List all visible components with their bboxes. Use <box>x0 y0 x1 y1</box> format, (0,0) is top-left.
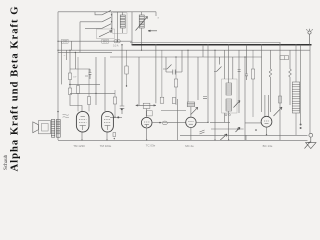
wire IF bottom2 <box>224 113 226 122</box>
IF transformer box <box>222 79 238 113</box>
tuning capacitor arrow <box>99 30 112 36</box>
resistor R4 <box>113 90 116 117</box>
svg-text:TM 323e: TM 323e <box>100 144 112 148</box>
loudspeaker cone <box>33 122 39 133</box>
wire V4 anode side <box>196 121 208 123</box>
svg-text:TC 03e: TC 03e <box>146 143 156 147</box>
connector marks <box>63 114 69 117</box>
wire drop x300.6 <box>300 45 302 124</box>
wire drop x132 <box>131 12 133 45</box>
wire drop x198 <box>197 57 199 100</box>
wire drop x117.5 <box>117 12 119 41</box>
output transformer secondary <box>56 119 60 137</box>
wire switch column <box>111 12 113 33</box>
lamp pair <box>114 40 120 43</box>
wire drop x188 <box>187 50 189 102</box>
node G <box>95 93 96 94</box>
tube V3 envelope <box>141 117 152 128</box>
heavy HT bus <box>132 44 312 46</box>
wire IF bottom <box>228 111 230 140</box>
potentiometer arrow P3 <box>234 101 241 108</box>
wire V5 left <box>245 122 261 124</box>
tube V1 envelope <box>76 111 89 132</box>
svg-text:Alpha Kraft und Beta Kraft G: Alpha Kraft und Beta Kraft G <box>10 7 21 172</box>
wire left rail vertical <box>57 12 59 140</box>
wire stub x280b <box>279 135 281 140</box>
thin companion bus <box>130 42 281 44</box>
capacitor C5 <box>238 70 241 72</box>
output transformer primary <box>51 119 54 137</box>
fuse bus wire <box>58 40 132 42</box>
wire IF top3 <box>232 57 234 79</box>
wire link x71 <box>71 41 73 50</box>
capacitor C3 <box>166 70 182 75</box>
node C <box>126 85 127 86</box>
resistor R8 <box>251 50 254 117</box>
wire y84 <box>69 83 100 85</box>
svg-text:~: ~ <box>64 54 66 58</box>
grid coil V4 <box>187 102 194 107</box>
coil L1 <box>120 15 125 28</box>
wire drop x270 <box>269 50 271 69</box>
tube V2 envelope <box>102 111 114 132</box>
node H <box>255 129 257 131</box>
resistor R2 <box>68 88 71 95</box>
wire to tube V4 <box>190 107 192 118</box>
wire corner x177 <box>161 99 186 140</box>
wire top link coils <box>123 12 142 15</box>
wire C9 to V4 grid <box>168 122 186 124</box>
antenna terminal <box>306 29 312 45</box>
coil L4 small <box>289 69 291 77</box>
wire drop x182 <box>181 50 183 72</box>
coil L2 <box>139 15 144 28</box>
wire drop x245 <box>244 57 246 140</box>
capacitor C9 electrolytic <box>162 121 167 125</box>
output choke winding <box>292 45 299 135</box>
wire tube V5 grid <box>265 95 268 117</box>
potentiometer arrow P2 <box>274 107 283 116</box>
wire drop x310 <box>309 45 311 134</box>
pickup jack <box>305 133 317 148</box>
wire coil L1 bottom <box>122 28 124 33</box>
capacitor C1 <box>85 69 91 79</box>
wire y129 <box>211 128 244 130</box>
switch S1a <box>95 10 111 15</box>
wire stub x246 <box>245 135 247 140</box>
switch S3 <box>163 65 172 70</box>
coupling box B1 <box>143 103 150 108</box>
wire V3 cathode <box>146 128 148 140</box>
wire drop x208 <box>207 45 209 123</box>
node A <box>69 84 70 85</box>
bus wire y50 <box>58 49 310 51</box>
arrow node mid <box>236 127 241 132</box>
capacitor C11 <box>203 97 207 99</box>
coupling box B2 <box>146 111 152 116</box>
wire arrow line y105 <box>136 105 156 106</box>
resistor R7 <box>174 57 177 105</box>
switch S1b <box>80 17 111 22</box>
arrow bottom mid <box>220 134 227 140</box>
wire V2 cathode <box>106 132 108 140</box>
pointer arrow wave switch <box>148 30 157 32</box>
IF coil A <box>226 83 232 95</box>
wire drop x215 <box>214 50 216 140</box>
node y52 <box>75 52 76 53</box>
wire V5 cathode <box>266 127 268 135</box>
fuse F1 <box>62 39 69 43</box>
wire drop x261 <box>261 45 263 112</box>
svg-text:0,3 A: 0,3 A <box>113 45 119 48</box>
resistor R13 <box>88 69 91 111</box>
wire V1 cathode <box>81 132 83 140</box>
resistor R11 <box>279 96 282 103</box>
tube V5 electrodes <box>264 121 269 124</box>
node B <box>114 117 115 118</box>
wire y122 <box>210 121 230 123</box>
switch S2 <box>214 57 222 72</box>
wire drop to tube V1 <box>70 95 82 112</box>
capacitor C4 <box>200 130 205 134</box>
cathode resistor small <box>113 133 116 140</box>
wire to tube V3 <box>146 109 148 118</box>
loudspeaker inner pole <box>42 123 49 131</box>
svg-text:TM 1230: TM 1230 <box>73 144 85 148</box>
wire drop x75 <box>74 52 76 69</box>
capacitor C2 <box>120 45 125 114</box>
tuning capacitor box <box>97 29 115 39</box>
node cap blob1 <box>121 108 123 110</box>
wire coil L2 bottom <box>141 28 143 50</box>
switch S1c <box>85 24 111 29</box>
wire stub x156 <box>155 12 157 16</box>
bus wire y52 <box>58 51 112 53</box>
wire V3 anode side <box>152 122 162 124</box>
tube V5 envelope <box>261 116 272 127</box>
svg-text:Schaub: Schaub <box>3 154 9 170</box>
trimmer arrow L2 <box>136 17 148 31</box>
svg-text:MC 2e: MC 2e <box>185 144 194 148</box>
resistor R6 <box>160 50 164 103</box>
tube V2 electrodes <box>104 117 111 131</box>
tube V4 electrodes <box>188 122 193 125</box>
resistor R12 <box>77 57 80 111</box>
tube V4 envelope <box>186 117 196 127</box>
wire drop x70 <box>69 50 71 73</box>
wire drop x66 <box>66 50 68 60</box>
node F <box>237 128 239 130</box>
IF coil B <box>226 99 232 111</box>
wire drop x62 <box>61 41 63 84</box>
wire drop x280 <box>279 43 281 136</box>
wire drop x96 <box>95 57 97 105</box>
loudspeaker magnet <box>39 121 51 134</box>
wire IF top2 <box>224 50 226 79</box>
wire y117 <box>110 116 122 118</box>
wire V4 cathode <box>190 128 192 141</box>
bottom rail <box>58 139 308 141</box>
node speaker top <box>57 111 58 112</box>
wire drop x139 <box>138 57 140 105</box>
node switch contacts <box>111 14 112 29</box>
wire drop x239 <box>238 50 240 113</box>
wire drop x166 <box>165 57 167 72</box>
resistor R10 <box>172 98 175 104</box>
resistor R5 <box>125 50 128 86</box>
wire below L4 <box>289 77 291 105</box>
node cap blob2 <box>117 116 119 118</box>
electrolytic pair <box>300 124 302 130</box>
wire drop x290 <box>289 50 291 69</box>
wire IF top <box>228 45 230 83</box>
wire y69 <box>70 68 90 70</box>
IF coil terminals <box>225 114 230 116</box>
capacitor C6 <box>245 45 248 80</box>
tube V3 electrodes <box>144 122 149 127</box>
wire drop x203 <box>202 45 204 57</box>
potentiometer arrow P1 <box>191 107 198 115</box>
wire drop from S1b <box>79 22 81 53</box>
tube V1 electrodes <box>79 117 86 131</box>
wire y93 <box>70 92 115 94</box>
svg-text:BC 13e: BC 13e <box>263 144 273 148</box>
coil L3 small <box>269 69 271 77</box>
bottom wire y135 <box>180 134 308 136</box>
node E <box>207 122 208 123</box>
wire R1-R2 <box>69 80 71 89</box>
wire below L3 <box>269 77 271 112</box>
wire drop x155.9 <box>155 45 157 103</box>
resistor R1 <box>68 73 71 80</box>
node D <box>159 122 161 124</box>
bus wire y57 <box>110 56 262 58</box>
tuner box <box>113 13 128 33</box>
wire top bus <box>58 11 156 13</box>
wire drop x105 <box>104 57 106 111</box>
resistor R9 <box>280 56 289 60</box>
fuse F2 <box>102 39 109 43</box>
